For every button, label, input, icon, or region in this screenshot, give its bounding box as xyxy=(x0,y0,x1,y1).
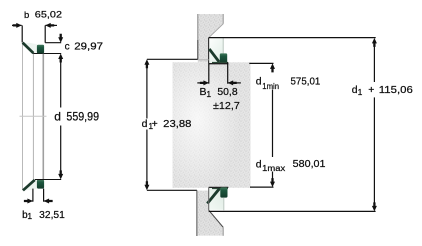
node seal mid face line (faint) xyxy=(20,115,47,117)
wire: b1 right extension line xyxy=(43,189,45,202)
svg-text:1: 1 xyxy=(358,87,363,97)
node bottom bar left edge xyxy=(196,190,198,236)
svg-text:115,06: 115,06 xyxy=(379,84,413,96)
wire: d1min extension line xyxy=(249,62,273,64)
wire: housing top-left face line xyxy=(147,58,198,60)
wire: d1 surface long bottom line xyxy=(209,210,376,212)
wire: d dimension line with shared up arrow xyxy=(58,54,63,180)
node d1+23,88 label xyxy=(142,118,192,131)
svg-text:580,01: 580,01 xyxy=(293,158,326,170)
wire: line above bottom seal y=179.5 xyxy=(35,179,61,181)
svg-text:23,88: 23,88 xyxy=(163,118,191,130)
wire: B1 dimension left arrow xyxy=(197,80,209,85)
wire: d1+23,88 dimension line with arrows xyxy=(144,59,149,190)
wire: B1 left extension line xyxy=(208,64,210,84)
wire: b1 dimension right arrow xyxy=(44,199,53,204)
node top seal green block xyxy=(37,45,44,54)
node top seal lip xyxy=(23,43,34,54)
wire: line under top seal y=53.5 xyxy=(33,53,61,55)
wire: d1max down arrow segment xyxy=(270,172,275,188)
node B1 label xyxy=(200,86,240,112)
wire: b1 dimension left arrow xyxy=(24,199,33,204)
wire: b dimension line right segment with arrow xyxy=(45,23,57,28)
svg-text:d: d xyxy=(256,75,262,87)
svg-text:±12,7: ±12,7 xyxy=(213,100,240,112)
wire: bottom groove seat line xyxy=(209,186,229,188)
node bottom seal lip (right figure) xyxy=(207,189,219,204)
node bottom bar right edge xyxy=(222,227,224,236)
node bottom seal green block xyxy=(37,180,44,189)
svg-text:c: c xyxy=(65,41,70,52)
svg-text:559,99: 559,99 xyxy=(66,109,99,123)
wire: b right extension line xyxy=(44,25,46,42)
node top groove dark smear xyxy=(212,62,228,64)
wire: B1 right extension line xyxy=(227,62,229,83)
svg-text:d: d xyxy=(54,109,61,123)
node b1 label xyxy=(22,210,65,221)
node top shaft bar fill xyxy=(198,14,223,62)
node top bar left edge xyxy=(197,14,199,40)
node bottom seal pale area xyxy=(24,180,37,190)
node top bore edge xyxy=(208,38,210,64)
node bottom seal green block (right figure) xyxy=(220,187,227,197)
svg-text:1min: 1min xyxy=(262,81,279,91)
svg-text:1max: 1max xyxy=(262,163,286,173)
svg-text:50,8: 50,8 xyxy=(217,86,237,98)
wire: d1 surface long top line xyxy=(209,37,376,39)
svg-text:1: 1 xyxy=(206,89,211,99)
node d1 label xyxy=(352,84,413,97)
svg-text:b: b xyxy=(24,10,29,21)
wire: B1 dimension right arrow xyxy=(228,80,241,85)
wire: d1max extension line xyxy=(250,186,274,188)
svg-text:+: + xyxy=(368,84,374,96)
node top seal green block (right figure) xyxy=(220,53,227,63)
node d1max label xyxy=(256,158,326,173)
wire: housing bottom-left face line xyxy=(147,189,197,191)
wire: d1min up arrow xyxy=(270,63,275,72)
node bottom bar chamfer xyxy=(209,210,224,227)
node bottom bore edge xyxy=(208,187,210,210)
node b label xyxy=(24,10,62,21)
node housing block fill xyxy=(173,62,251,188)
node top bar chamfer xyxy=(209,24,224,38)
node seal body middle edge (gray) xyxy=(32,54,34,180)
wire: b dimension line left segment with arrow xyxy=(12,23,22,28)
node d1min label xyxy=(256,75,321,91)
wire: b left extension line xyxy=(21,25,23,42)
svg-text:d: d xyxy=(256,158,262,170)
node top shaft surface thin line xyxy=(222,38,224,54)
svg-text:32,51: 32,51 xyxy=(39,210,65,221)
wire: d1 dimension line with arrows xyxy=(372,38,377,212)
node top bar right edge xyxy=(222,14,224,24)
node top seal lip (right figure) xyxy=(209,49,219,62)
node c label xyxy=(65,41,104,52)
node seal body right edge (gray) xyxy=(42,54,44,180)
node d label xyxy=(54,109,99,123)
node top seal pale area xyxy=(24,43,37,53)
wire: c dimension upper segment with down arrow xyxy=(58,34,63,43)
node bottom seal lip xyxy=(23,180,35,191)
svg-text:65,02: 65,02 xyxy=(35,10,62,21)
wire: b1 left extension line xyxy=(32,189,34,202)
svg-text:1: 1 xyxy=(27,211,32,221)
node bottom shaft surface thin line xyxy=(223,198,225,211)
node seal body left edge (gray) xyxy=(22,43,24,190)
node bottom groove pale area xyxy=(209,188,223,210)
svg-text:+: + xyxy=(152,118,158,130)
node housing block highlight xyxy=(173,62,251,188)
node top groove pale area xyxy=(209,38,223,63)
wire: d1min-d1max connector line xyxy=(272,90,274,158)
wire: top horizontal line y=42.7 xyxy=(45,42,61,44)
wire: top groove seat line xyxy=(209,63,229,65)
svg-text:575,01: 575,01 xyxy=(291,75,321,87)
svg-text:d: d xyxy=(142,118,148,130)
node bottom shaft bar fill xyxy=(198,191,223,236)
node bottom groove dark smear xyxy=(212,187,228,189)
svg-text:29,97: 29,97 xyxy=(74,41,103,52)
